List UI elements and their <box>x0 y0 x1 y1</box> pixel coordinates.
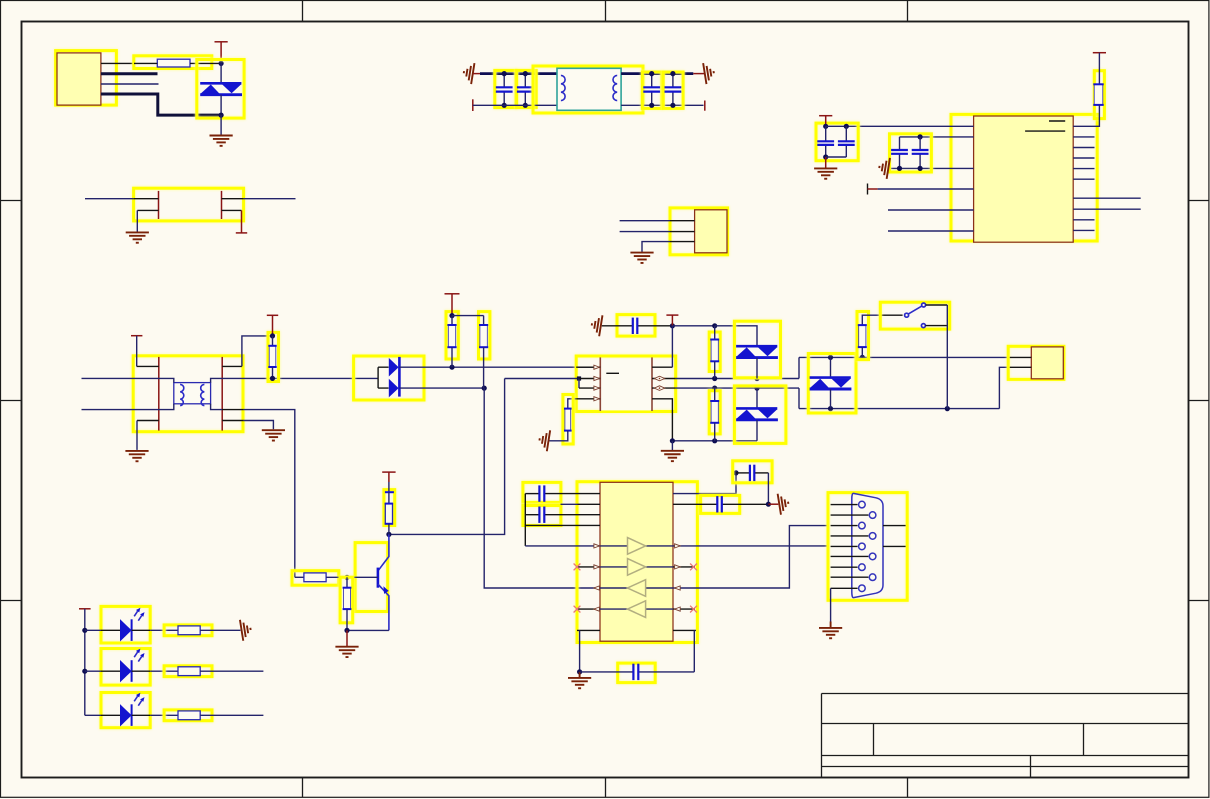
U2 out diamond 3 <box>654 386 664 391</box>
U3 pin nc4 <box>673 608 695 610</box>
choke L1 body <box>557 68 621 110</box>
gnd stem <box>830 622 832 628</box>
Q1 emitter <box>378 584 389 630</box>
wire <box>483 347 485 388</box>
U2 pin 4 <box>576 398 600 400</box>
LED D6 cathode bar <box>131 619 133 641</box>
earth (LED1) <box>240 618 252 640</box>
U2 out diamond 2 <box>654 376 664 381</box>
bottom wire right of choke <box>621 104 703 106</box>
earth chassis right (EMI) <box>703 62 715 84</box>
GD1 pin top-left <box>134 198 159 200</box>
base wire <box>347 576 378 578</box>
capacitor C7 <box>891 137 908 169</box>
U3 buffer triangle 3 <box>628 580 646 597</box>
capacitor C8 <box>912 137 929 169</box>
junction node TVS bottom <box>219 113 224 118</box>
J2 pin 1 <box>670 220 695 222</box>
DB9 pin line 7 <box>831 566 858 568</box>
GD1 pin bottom-left <box>137 209 158 211</box>
drop wire to U3 RO <box>484 388 600 588</box>
resistor R11 <box>343 588 352 609</box>
U2 right pin 2 <box>652 378 676 380</box>
TVS D3 highlight box <box>734 321 780 378</box>
capacitor C13 <box>736 465 768 481</box>
wire <box>451 316 453 325</box>
SW1 lever <box>908 306 921 314</box>
power stem <box>220 42 222 64</box>
wire rail to U2 pin1 <box>671 326 673 367</box>
T1 secondary winding <box>201 384 205 405</box>
junction Q1 emitter/R11 <box>344 628 349 633</box>
wire LED to R13 <box>132 670 151 672</box>
wire stub U3 <box>561 503 578 505</box>
resistor R2 <box>268 346 276 367</box>
no-ERC mark <box>690 564 697 571</box>
wire J2 pin1 <box>620 220 670 222</box>
junction C8 bottom <box>918 166 923 171</box>
connector J2 highlight box <box>670 208 728 255</box>
U2 pin 1 <box>576 366 600 368</box>
LED D7 highlight box <box>101 649 150 686</box>
junction C8 top <box>918 134 923 139</box>
no-ERC mark <box>574 606 581 613</box>
junction C13/C14/earth <box>766 502 771 507</box>
ground GND (T1 right) <box>262 430 285 440</box>
bottom iso rail <box>672 440 757 442</box>
junction iso gnd <box>670 438 675 443</box>
cap C13 highlight box <box>733 461 772 483</box>
bottom line to connector <box>799 408 999 410</box>
cap C1 highlight box <box>495 70 516 107</box>
wire <box>830 357 832 377</box>
LED D6 highlight box <box>101 606 150 643</box>
border zone ticks top <box>302 1 304 21</box>
capacitor C5 <box>817 126 834 157</box>
power bar VCC1 <box>215 41 228 43</box>
wire U2pin2 net down <box>389 379 505 535</box>
junction Q1 base <box>344 575 349 580</box>
resistor R14 <box>178 711 200 720</box>
capacitor C12 <box>580 664 695 680</box>
junction SW drop <box>945 406 950 411</box>
DB9 pin line 2 <box>831 514 869 516</box>
wire D2 top out <box>399 366 593 368</box>
DB9 pin line 4 <box>831 535 869 537</box>
power bar (R9) <box>382 471 395 473</box>
GD1 pin top-right <box>222 198 244 200</box>
LED D8 emission arrows <box>134 693 144 706</box>
wire VCC to R1 <box>1098 53 1100 85</box>
SW1 contact B <box>922 303 926 307</box>
LED D7 cathode bar <box>131 660 133 682</box>
wire R14 out <box>200 714 263 716</box>
wire U3 A to DB9 <box>673 545 829 547</box>
J2 pin 3 <box>670 241 695 243</box>
isolator U2 body <box>600 359 652 411</box>
resistor R4 highlight box <box>479 312 490 359</box>
wire earth to filter red stub <box>473 73 481 75</box>
choke L1 right winding <box>613 75 617 100</box>
TVS D2b (down) <box>389 379 399 398</box>
junction R3 top <box>449 313 454 318</box>
wire A (mid) <box>676 378 799 380</box>
U3 pin nc2 <box>577 608 600 610</box>
ground GND (J2) <box>630 253 653 263</box>
U1 label mark 2 <box>1025 130 1065 132</box>
resistor R7 <box>710 401 719 423</box>
GD1 pin bottom-right <box>222 209 242 211</box>
U3 pin nc1 <box>577 566 600 568</box>
wire cap group to U1 pin1 <box>846 125 973 127</box>
resistor R8 <box>858 325 867 347</box>
resistor R10 highlight box <box>292 571 339 586</box>
wire J2 pin3 <box>642 242 670 252</box>
T1 pin bottom-right <box>222 420 243 422</box>
TVS D2a (up) <box>389 358 399 377</box>
stem to ground <box>825 157 827 168</box>
transistor Q1 highlight box <box>355 543 388 612</box>
SW drop wire <box>946 305 948 409</box>
rail corner into TVS D3 <box>715 326 757 345</box>
U2 pin 3 <box>579 387 600 389</box>
resistor R3 <box>447 325 456 347</box>
junction R2 top <box>270 333 275 338</box>
DB9 pin line 6 <box>831 555 869 557</box>
wire <box>714 326 716 340</box>
junction R8 bottom <box>860 355 865 360</box>
U3 pin gnd right <box>673 629 696 631</box>
wire gnd drop <box>579 630 581 672</box>
power bar (R2) <box>267 314 278 316</box>
IC U3 body <box>600 482 673 641</box>
line A out of T1 <box>211 378 379 382</box>
junction C5 bottom <box>823 154 828 159</box>
cap C3 highlight box <box>642 72 662 108</box>
choke L1 highlight box <box>533 66 643 113</box>
caps C5 C6 highlight box <box>816 123 858 161</box>
U2 right pin 1 <box>652 366 672 368</box>
fuse F1 body <box>157 59 190 67</box>
SW1 contact A <box>905 313 909 317</box>
DB9 shield drop <box>830 588 832 622</box>
resistor R6 <box>710 340 719 362</box>
LED rail <box>84 609 86 716</box>
DB9 pin line 9 <box>831 587 858 589</box>
jog pin2-pin3 <box>578 379 580 389</box>
LED D8 highlight box <box>101 693 150 728</box>
gnd stem <box>579 672 581 678</box>
pin 2 J1 (thick) <box>101 72 158 75</box>
capacitor C10 <box>525 485 600 501</box>
connector J3 highlight box <box>1008 346 1064 379</box>
crossover jog down <box>798 388 800 409</box>
cap C9 highlight box <box>617 315 655 337</box>
T1 primary winding <box>180 384 184 405</box>
no-ERC mark <box>690 606 697 613</box>
wire <box>483 316 485 325</box>
resistor R14 highlight box <box>164 710 212 721</box>
wire earth rail to U1 pin3 <box>888 167 973 169</box>
DB9 right stub 2 <box>883 545 906 547</box>
stem <box>825 116 827 127</box>
wire <box>272 336 274 346</box>
wire C6-C5 bottom <box>826 156 847 158</box>
IC U1 body <box>974 116 1074 242</box>
junction square <box>577 376 581 380</box>
TVS D1 (bidirectional) <box>200 83 242 94</box>
DB9 pin line 1 <box>831 504 858 506</box>
stem <box>346 630 348 646</box>
resistor R9 highlight box <box>384 490 395 526</box>
U3 pin DI row <box>525 524 600 526</box>
wire to U1 pin6 <box>888 230 974 232</box>
wire to ground <box>220 115 222 134</box>
wire stub <box>868 188 878 190</box>
wire TVS to node2 <box>220 95 222 115</box>
junction line A / R3 <box>449 365 454 370</box>
wire U2 pin4 to R5 <box>568 399 576 409</box>
caps C7 C8 highlight box <box>890 134 932 172</box>
connector J3 body <box>1031 347 1063 379</box>
DB9 J4 highlight box <box>828 493 907 601</box>
LED D8 cathode bar <box>131 704 133 726</box>
border zone ticks bottom <box>302 778 304 798</box>
T1 shield bar left <box>158 357 160 431</box>
D2 input split <box>378 367 389 388</box>
ground GND (Q1) <box>335 647 358 657</box>
resistor R10 <box>304 573 326 582</box>
cap C2 highlight box <box>517 70 537 107</box>
wire to U1 pin5 <box>888 209 974 211</box>
crossover jog up <box>798 357 800 378</box>
junction C13 left <box>733 470 738 475</box>
resistor R8 highlight box <box>857 312 869 360</box>
wire <box>830 389 832 409</box>
wire <box>451 347 453 367</box>
wire C7 top <box>900 136 921 138</box>
U1 label mark 1 <box>1049 120 1065 122</box>
cap C14 highlight box <box>701 495 740 513</box>
top wire right of choke (thick) <box>621 72 693 75</box>
power bar VCC (R1) <box>1093 52 1106 54</box>
junction R2 bottom on line A <box>270 376 275 381</box>
resistor R7 highlight box <box>709 391 720 434</box>
wire SW to R8 <box>880 314 902 316</box>
T1 shield bar right <box>221 357 223 431</box>
wire line B to R10 <box>295 576 304 578</box>
GD1 right stub <box>241 210 243 232</box>
wire rail to LED1 <box>85 629 101 631</box>
SW1 wire B <box>926 304 948 306</box>
U2 label mark <box>606 372 619 374</box>
power bar VCC (C5) <box>819 115 832 117</box>
resistor R13 highlight box <box>164 666 212 677</box>
ground GND (T1 left) <box>125 451 148 461</box>
junction C6 top <box>844 124 849 129</box>
ground GND (U3) <box>568 678 591 688</box>
wire LED to R12 <box>132 629 151 631</box>
LED D8 triangle <box>120 704 132 726</box>
wire D2 bottom out <box>399 387 484 389</box>
wire C5-C6 top <box>826 125 847 127</box>
pin 1 J1 <box>101 62 134 64</box>
J3 pin 1 <box>1010 356 1031 358</box>
junction R7 top <box>712 386 717 391</box>
T1 pin top-right <box>222 365 242 367</box>
cap C12 highlight box <box>618 663 656 683</box>
GD1 electrode right <box>221 191 223 219</box>
wire <box>714 423 716 441</box>
ground GND (iso) <box>661 451 684 461</box>
wire rail to LED3 <box>85 714 101 716</box>
TVS D5 highlight box <box>808 354 856 414</box>
junction D4 top <box>754 386 759 391</box>
junction / drop to U3 <box>482 386 487 391</box>
cap C4 highlight box <box>663 72 683 108</box>
resistor R6 highlight box <box>709 332 720 372</box>
border zone ticks left <box>1 200 22 202</box>
resistor R4 <box>479 325 488 347</box>
resistor R12 <box>178 626 200 635</box>
connector J1 highlight box <box>56 51 117 106</box>
T1 pin bottom-left <box>137 420 159 422</box>
wire R12 to earth <box>200 629 240 631</box>
U3 buffer inner wires row 2 <box>600 566 628 568</box>
transformer T1 highlight box <box>133 356 243 432</box>
wire to U3 RO <box>594 586 600 590</box>
power bar (R3/R4) <box>445 293 460 295</box>
U3 buffer triangle 2 <box>628 559 646 576</box>
wire fuse to node <box>134 62 157 64</box>
D2 cathode bar <box>398 357 401 397</box>
line B out of T1 <box>211 404 222 410</box>
stem <box>388 472 390 482</box>
power bar (iso VCC) <box>666 314 678 316</box>
fuse F1 highlight box <box>134 56 212 69</box>
ground GND (DB9) <box>819 628 842 638</box>
junction D5 bottom <box>828 406 833 411</box>
wire R1 to U1 pin <box>1095 105 1100 126</box>
wire D4 to gnd rail <box>756 420 758 441</box>
junction C7 bottom <box>897 166 902 171</box>
stem <box>671 441 673 450</box>
connector J1 body <box>57 53 101 105</box>
wire U1 RX out <box>1095 208 1141 210</box>
junction D3 bottom <box>754 376 759 381</box>
wire earth to filter (thick) <box>480 72 557 75</box>
stem <box>272 315 274 336</box>
LED D6 emission arrows <box>134 608 144 621</box>
bottom terminal bar left <box>472 99 474 111</box>
resistor R1 highlight box <box>1094 71 1104 119</box>
wire <box>388 524 390 535</box>
top line to connector <box>799 356 1010 358</box>
LED D7 emission arrows <box>134 649 144 662</box>
wire emitter to gnd rail <box>347 629 389 631</box>
resistor R1 <box>1093 84 1103 105</box>
ground GND (GD1) <box>126 232 149 242</box>
wire B (mid) <box>676 387 799 389</box>
stem <box>451 294 453 316</box>
cap column vertical <box>524 494 526 546</box>
resistor R9 <box>385 491 394 493</box>
SW1 contact C <box>921 324 925 328</box>
wire to U1 pin4 <box>878 188 974 190</box>
junction D5 top <box>828 355 833 360</box>
Q1 collector <box>378 534 389 570</box>
resistor R11 highlight box <box>340 577 353 623</box>
LED D6 triangle <box>120 619 132 641</box>
line A from sheet left <box>82 378 174 382</box>
earth (U3 iso) <box>778 492 790 514</box>
junction gnd/cap <box>577 669 582 674</box>
wire <box>272 367 274 378</box>
earth (C9) <box>590 314 602 336</box>
J3 pin 2 <box>1010 366 1031 368</box>
title block <box>822 694 1189 778</box>
DB9 shell <box>852 493 883 597</box>
terminal bar stub <box>867 184 869 195</box>
switch SW1 highlight box <box>880 302 949 329</box>
wire <box>714 361 716 378</box>
resistor R2 highlight box <box>268 332 279 381</box>
GD1 electrode left <box>158 191 160 219</box>
terminal bar <box>236 232 247 234</box>
wire R10 to base <box>326 576 347 578</box>
wire line B to D4 <box>756 388 758 408</box>
U2 right pin 4 <box>652 399 672 441</box>
ground GND (C5) <box>814 168 837 178</box>
wire R5 to earth <box>550 431 568 441</box>
no-ERC mark <box>574 564 581 571</box>
capacitor C1 <box>496 74 513 106</box>
U3 buffer inner wires row 4 <box>600 608 628 610</box>
rail to TVS col <box>672 325 714 327</box>
DB9 right stub 1 <box>883 525 906 527</box>
resistor R3 highlight box <box>446 312 458 359</box>
DB9 pin line 5 <box>831 545 858 547</box>
SW1 wire C <box>925 325 947 327</box>
line B from sheet left <box>82 404 174 410</box>
connector jog <box>999 367 1010 408</box>
C13 right drop <box>767 473 769 504</box>
wire R8 to line <box>861 347 863 357</box>
arrester GD1 highlight box <box>134 188 244 221</box>
stem <box>671 315 673 326</box>
U3 buffer inner wires row 3 <box>600 587 628 589</box>
capacitor C4 <box>665 74 682 106</box>
TVS D1 highlight box <box>197 60 244 119</box>
TVS D5 (bidirectional) <box>810 378 852 389</box>
capacitor C14 <box>673 496 768 512</box>
U3 pin nc3 <box>673 566 695 568</box>
TVS D2 highlight box <box>354 356 424 400</box>
capacitor C9 <box>602 318 673 334</box>
junction R6 top <box>712 323 717 328</box>
U1 right pins <box>1073 125 1094 127</box>
wire node to TVS <box>220 63 222 83</box>
LED D7 triangle <box>120 660 132 682</box>
IC U3 highlight box <box>577 482 697 643</box>
wire <box>346 609 348 630</box>
capacitor C6 <box>838 126 855 157</box>
TVS D4 (bidirectional) <box>736 408 778 419</box>
wire <box>346 577 348 587</box>
power bar (LED rail) <box>79 608 91 610</box>
ground GND (J1 circuit) <box>210 136 233 146</box>
junction R7 bottom <box>712 438 717 443</box>
